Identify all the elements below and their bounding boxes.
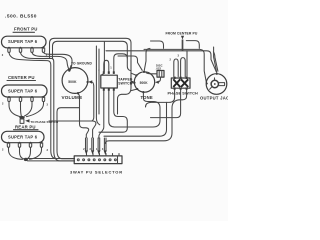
svg-text:3WAY PU SELECTOR: 3WAY PU SELECTOR	[70, 169, 123, 174]
svg-text:OUTPUT JACK: OUTPUT JACK	[200, 96, 228, 101]
svg-text:CENTER PU: CENTER PU	[8, 75, 35, 80]
svg-text:SUPER TAP 6: SUPER TAP 6	[8, 89, 38, 94]
svg-text:PHASE SWITCH: PHASE SWITCH	[168, 91, 198, 95]
svg-text:500K: 500K	[140, 81, 149, 85]
svg-text:SUPER TAP 6: SUPER TAP 6	[8, 134, 38, 139]
svg-text:TO PHASE SWITCH: TO PHASE SWITCH	[31, 120, 59, 124]
svg-text:REAR PU: REAR PU	[15, 124, 36, 129]
svg-text:.500. BL550: .500. BL550	[5, 14, 37, 20]
svg-text:TONE: TONE	[141, 95, 153, 100]
svg-text:SUPER TAP 6: SUPER TAP 6	[8, 39, 38, 44]
svg-text:TO GROUND: TO GROUND	[71, 61, 93, 65]
svg-text:FRONT PU: FRONT PU	[14, 27, 38, 32]
svg-text:.022: .022	[156, 67, 162, 71]
svg-text:500K: 500K	[68, 80, 77, 84]
svg-text:FROM CENTER PU: FROM CENTER PU	[166, 31, 198, 35]
